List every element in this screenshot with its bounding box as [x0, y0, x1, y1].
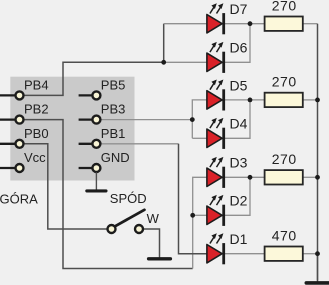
wire D7 anode stub — [164, 23, 207, 25]
switch W — [108, 210, 160, 233]
resistor R3 270 — [265, 151, 303, 185]
ground switch ground — [149, 257, 171, 259]
pin PB3 — [79, 102, 126, 124]
wire R4 to rail — [303, 253, 318, 255]
wire D1 cathode — [225, 253, 264, 255]
wire PB2 down-around — [20, 120, 193, 269]
svg-text:270: 270 — [272, 74, 297, 90]
wire D3/D2 anode rail — [193, 177, 207, 268]
pin PB1 — [79, 126, 126, 148]
wire D2 cathode riser — [225, 177, 250, 215]
pin PB5 — [79, 78, 126, 100]
wire PB3 to rail — [96, 119, 192, 121]
wire D7/D6 anode rail — [163, 24, 165, 63]
junction H — [315, 175, 320, 180]
svg-text:D6: D6 — [230, 40, 248, 56]
pin PB2 — [0, 102, 49, 124]
wire PB4 to LED rail — [20, 62, 164, 95]
svg-text:PB3: PB3 — [101, 102, 126, 117]
junction A — [161, 60, 166, 65]
wire R2 to rail — [303, 99, 318, 101]
pin Vcc — [0, 150, 46, 172]
resistor R2 270 — [265, 74, 303, 108]
LED D7 — [207, 1, 248, 34]
junction D — [248, 21, 253, 26]
svg-text:D3: D3 — [230, 155, 248, 171]
svg-text:SPÓD: SPÓD — [110, 191, 147, 206]
wire R1 to rail — [303, 23, 318, 25]
svg-text:GÓRA: GÓRA — [0, 192, 38, 207]
svg-text:W: W — [147, 211, 160, 226]
svg-text:D2: D2 — [230, 193, 248, 209]
wire D3 cathode — [225, 176, 264, 178]
resistor R1 270 — [265, 0, 303, 31]
svg-text:Vcc: Vcc — [24, 150, 46, 165]
LED D5 — [207, 77, 248, 110]
wire R3 to rail — [303, 176, 318, 178]
ground rail ground — [306, 254, 328, 283]
wire D6 anode stub — [164, 61, 207, 63]
ground below GND pin — [87, 172, 106, 191]
junction G — [315, 98, 320, 103]
wire D5 cathode — [225, 99, 264, 101]
svg-text:PB0: PB0 — [24, 126, 49, 141]
svg-text:470: 470 — [272, 227, 297, 243]
junction I — [315, 251, 320, 256]
svg-text:PB4: PB4 — [24, 78, 49, 93]
svg-text:PB1: PB1 — [101, 126, 126, 141]
wire PB1 down to D1 — [179, 144, 207, 254]
svg-text:D7: D7 — [230, 1, 248, 17]
wire PB1 horizontal — [96, 143, 178, 145]
pin PB4 — [0, 78, 49, 100]
pin PB0 — [0, 126, 49, 148]
connector body (gray block) — [10, 77, 134, 181]
svg-text:270: 270 — [272, 0, 297, 13]
svg-text:D4: D4 — [230, 116, 248, 132]
wire D4 cathode riser — [225, 100, 250, 138]
svg-text:GND: GND — [101, 150, 130, 165]
junction C — [190, 213, 195, 218]
junction E — [248, 98, 253, 103]
wire right ground rail — [317, 24, 319, 281]
wire D5/D4 anode rail — [192, 100, 207, 138]
wire D7 cathode — [225, 23, 264, 25]
svg-text:270: 270 — [272, 151, 297, 167]
wire D4 anode stub — [192, 137, 207, 139]
wire D6 cathode riser — [225, 24, 250, 63]
svg-text:D5: D5 — [230, 77, 248, 93]
LED D6 — [207, 40, 248, 73]
svg-text:PB2: PB2 — [24, 102, 49, 117]
pin GND — [79, 150, 130, 172]
svg-text:D1: D1 — [230, 231, 248, 247]
junction B — [190, 117, 195, 122]
svg-text:PB5: PB5 — [101, 78, 126, 93]
LED D1 — [207, 231, 248, 264]
wire D2 anode stub — [193, 214, 207, 216]
LED D3 — [207, 155, 248, 188]
junction F — [248, 175, 253, 180]
LED D4 — [207, 116, 248, 149]
resistor R4 470 — [265, 227, 303, 261]
wire switch to ground — [143, 229, 159, 257]
wire PB0 to switch — [20, 144, 108, 229]
LED D2 — [207, 193, 248, 226]
